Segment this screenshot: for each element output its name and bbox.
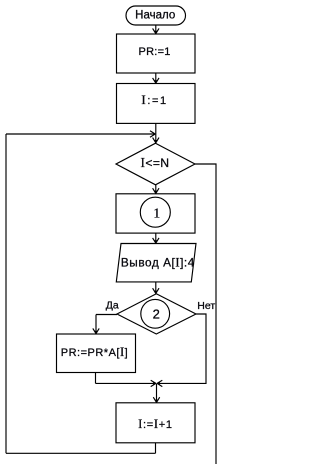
process box holding connector 1 [116, 194, 195, 233]
wire parallelogram to diamond 2 [155, 282, 157, 294]
terminator Начало [126, 6, 186, 25]
wire PR box right to junction [96, 382, 154, 384]
wire Да branch vertical down to PR box [95, 315, 97, 334]
arrowhead into PR multiply box [93, 328, 99, 334]
arrowhead PR path pointing right at junction [151, 380, 157, 386]
arrowhead into I:=I+1 [153, 397, 159, 403]
wire loop bottom horizontal [6, 452, 156, 454]
process I:=1 [117, 84, 196, 124]
wire Нет branch of diamond 2: right, down, left to junction [159, 314, 207, 383]
svg-text:I:=1: I:=1 [141, 92, 167, 107]
svg-text:PR:=PR*A[I]: PR:=PR*A[I] [61, 345, 128, 359]
arrowhead into diamond I<=N [153, 138, 159, 144]
arrowhead into I:=1 [153, 78, 159, 84]
wire PR box down [95, 373, 97, 384]
svg-text:1: 1 [153, 206, 160, 221]
wire loop: I:=I+1 down stub [155, 443, 157, 454]
connector circle 2 inside diamond [141, 299, 170, 328]
svg-text:Начало: Начало [135, 9, 175, 21]
svg-text:Нет: Нет [197, 300, 215, 312]
svg-text:Да: Да [106, 300, 119, 312]
wire connector box to output parallelogram [155, 233, 157, 243]
process PR:=1 [117, 34, 196, 73]
decision diamond 2 [117, 294, 196, 334]
svg-text:I<=N: I<=N [141, 155, 170, 170]
svg-text:Вывод A[I]:4: Вывод A[I]:4 [121, 256, 195, 270]
arrowhead into parallelogram [153, 238, 159, 244]
arrowhead into connector 1 box [153, 188, 159, 194]
output parallelogram Вывод A[I]:4 [116, 244, 196, 282]
wire I:=1 to diamond I<=N [155, 123, 157, 142]
svg-text:2: 2 [153, 307, 160, 322]
connector circle 1 [140, 197, 170, 227]
process I:=I+1 [116, 403, 195, 443]
decision diamond I<=N [116, 143, 195, 185]
svg-text:I:=I+1: I:=I+1 [138, 417, 173, 431]
wire Нет branch of I<=N going right and down [195, 164, 216, 464]
wire loop left vertical up [5, 134, 7, 453]
wire loop return horizontal top [6, 133, 152, 135]
arrowhead loop return joining vertical [150, 131, 156, 137]
process PR:=PR*A[I] [57, 334, 136, 373]
svg-text:PR:=1: PR:=1 [139, 46, 171, 58]
arrowhead into PR:=1 [153, 28, 159, 34]
wire Да branch horizontal [96, 314, 117, 316]
arrowhead Нет branch pointing left at junction [157, 380, 163, 386]
arrowhead into diamond 2 [153, 288, 159, 294]
wire junction down to I:=I+1 [156, 383, 158, 402]
wire diamond I<=N to connector 1 box [155, 185, 157, 194]
wire PR:=1 to I:=1 [155, 73, 157, 83]
wire oval to PR:=1 [155, 25, 157, 33]
